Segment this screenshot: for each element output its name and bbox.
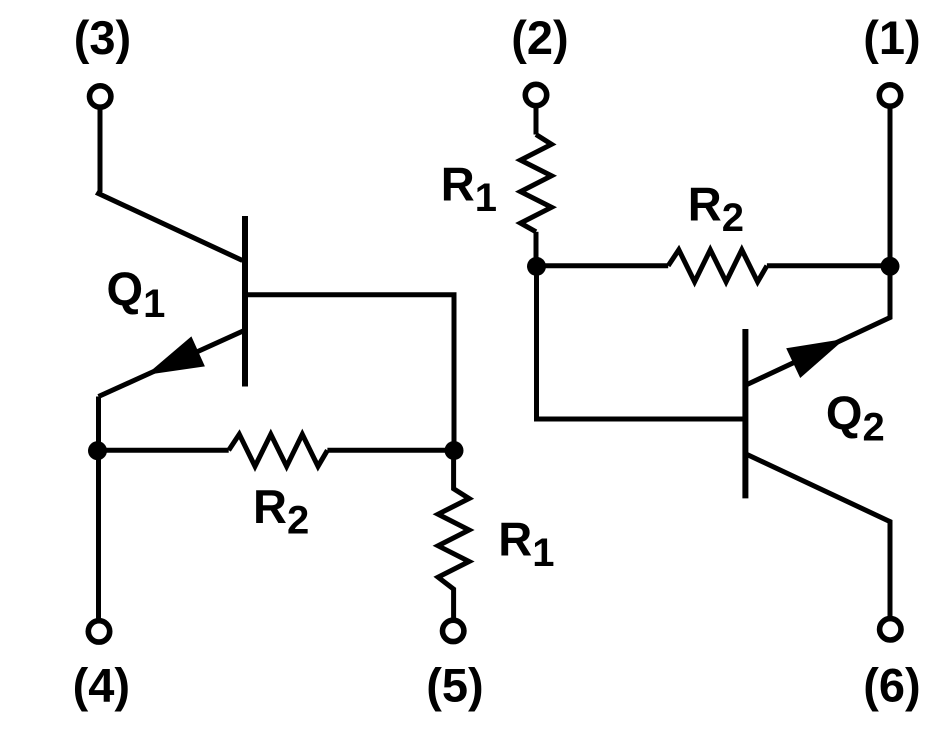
wire Q2 emitter diagonal from node D bbox=[746, 266, 890, 385]
wire Q1 emitter diagonal bbox=[99, 331, 244, 397]
wire emitter corner down through node A to pin4 bbox=[96, 397, 101, 621]
wire Q2 collector to pin6 bbox=[746, 454, 890, 618]
wire node C down and right to Q2 base bbox=[537, 266, 743, 419]
wire resistor R2 right lead to node D bbox=[767, 263, 890, 268]
terminal circle pin 1 bbox=[879, 85, 900, 106]
wire node C to resistor R2 left lead bbox=[537, 263, 669, 268]
node B junction dot bbox=[445, 441, 464, 460]
resistor R2 (right circuit) zigzag bbox=[668, 250, 767, 282]
svg-text:R2: R2 bbox=[253, 480, 309, 543]
resistor R1 (left circuit) zigzag vertical bbox=[438, 450, 469, 620]
svg-text:Q2: Q2 bbox=[826, 386, 885, 450]
node A junction dot bbox=[88, 441, 107, 460]
wire pin2 to resistor R1 top lead bbox=[534, 107, 539, 135]
transistor Q2 base bar bbox=[742, 329, 748, 498]
terminal circle pin 3 bbox=[90, 86, 111, 107]
svg-text:(2): (2) bbox=[511, 11, 568, 64]
svg-text:R1: R1 bbox=[441, 157, 497, 220]
svg-text:(5): (5) bbox=[426, 659, 483, 712]
svg-text:(6): (6) bbox=[863, 659, 920, 712]
wire resistor R1 bottom lead to node C bbox=[534, 232, 539, 267]
node D junction dot bbox=[881, 257, 900, 276]
wire node A to resistor R2 left lead bbox=[98, 448, 229, 453]
terminal circle pin 4 bbox=[88, 621, 109, 642]
svg-text:Q1: Q1 bbox=[107, 262, 166, 326]
terminal circle pin 5 bbox=[443, 620, 464, 641]
svg-text:(3): (3) bbox=[74, 11, 131, 64]
svg-text:R2: R2 bbox=[688, 177, 744, 240]
wire Q1 base to right corner down to node B bbox=[245, 295, 454, 448]
resistor R1 (right circuit) zigzag vertical bbox=[521, 135, 552, 232]
node C junction dot bbox=[527, 257, 546, 276]
terminal circle pin 2 bbox=[525, 84, 546, 105]
wire resistor R2 right lead to node B bbox=[327, 448, 454, 453]
svg-text:(1): (1) bbox=[863, 11, 920, 64]
svg-text:(4): (4) bbox=[73, 658, 130, 711]
resistor R2 (left circuit) zigzag bbox=[229, 434, 328, 466]
terminal circle pin 6 bbox=[880, 619, 901, 640]
arrow of Q2 emitter bbox=[786, 339, 845, 378]
wire pin1 down to node D bbox=[888, 107, 893, 263]
transistor Q1 base bar bbox=[242, 216, 248, 387]
svg-text:R1: R1 bbox=[498, 513, 554, 576]
arrow of Q1 emitter bbox=[146, 336, 205, 375]
wire pin3 to Q1 collector bbox=[99, 109, 243, 261]
